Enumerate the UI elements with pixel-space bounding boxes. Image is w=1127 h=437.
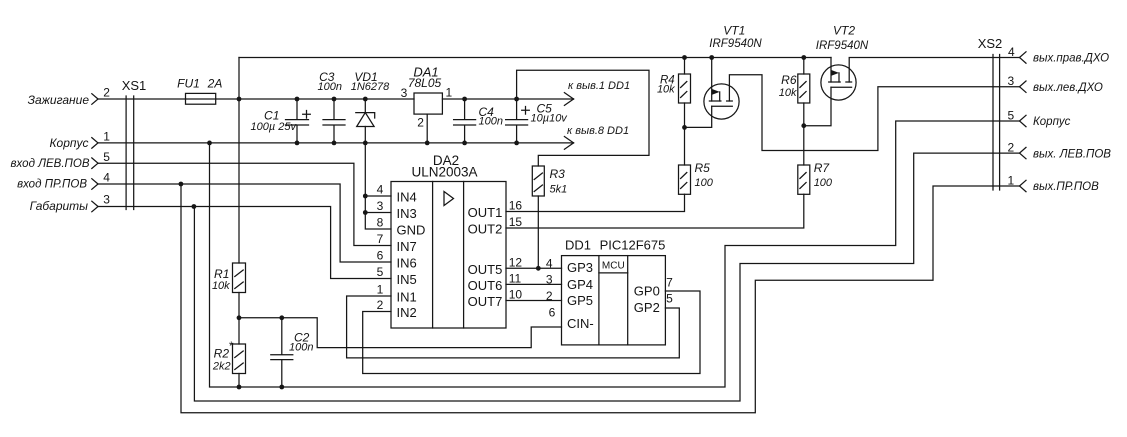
svg-text:1: 1 <box>1008 174 1015 188</box>
wire R1 bottom to divider node <box>238 293 240 318</box>
svg-text:2k2: 2k2 <box>212 360 231 372</box>
junction C4 top <box>462 97 467 102</box>
node вых.ПР.ПОВ pin 1 XS2 <box>1020 180 1027 191</box>
junction R4 R5 gate node <box>682 125 687 130</box>
svg-text:100: 100 <box>814 177 833 189</box>
svg-text:4: 4 <box>1008 45 1015 59</box>
svg-text:10k: 10k <box>779 87 797 99</box>
wire +5V wrap to R3 <box>517 70 649 166</box>
svg-text:R5: R5 <box>695 161 711 175</box>
svg-text:2A: 2A <box>207 77 223 91</box>
svg-text:10k: 10k <box>657 84 675 96</box>
svg-text:IN7: IN7 <box>397 239 417 254</box>
junction C3 top <box>332 97 337 102</box>
junction VD1 bottom <box>363 141 368 146</box>
svg-text:вых.ПР.ПОВ: вых.ПР.ПОВ <box>1033 181 1099 193</box>
svg-text:IN4: IN4 <box>397 189 417 204</box>
svg-text:15: 15 <box>509 215 523 229</box>
wire OUT5 to GP3 <box>506 267 562 269</box>
svg-text:10µ10v: 10µ10v <box>531 113 569 125</box>
wire OUT1 to R5 <box>506 194 685 211</box>
svg-text:1: 1 <box>445 86 452 100</box>
svg-text:Корпус: Корпус <box>49 136 88 150</box>
node вход ЛЕВ.ПОВ pin 5 XS1 <box>92 158 98 169</box>
svg-text:к выв.8 DD1: к выв.8 DD1 <box>567 125 629 137</box>
svg-text:3: 3 <box>546 273 553 287</box>
svg-text:R1: R1 <box>214 267 229 281</box>
svg-text:CIN-: CIN- <box>567 316 594 331</box>
svg-text:*: * <box>228 339 233 353</box>
wire divider to CIN- <box>239 318 562 348</box>
svg-text:4: 4 <box>377 183 384 197</box>
junction R3 to OUT5 GP3 wire <box>536 266 541 271</box>
svg-text:5k1: 5k1 <box>550 184 568 196</box>
svg-text:IRF9540N: IRF9540N <box>816 40 869 52</box>
resistor R1 <box>233 263 246 293</box>
wire ground to ULN2003 GND IN3 IN4 <box>365 143 391 229</box>
svg-text:R7: R7 <box>814 161 831 175</box>
svg-text:IN3: IN3 <box>397 206 417 221</box>
svg-text:XS2: XS2 <box>978 36 1003 51</box>
svg-text:5: 5 <box>666 292 673 306</box>
wire R3 bottom to GP3 <box>537 196 539 268</box>
resistor R4 <box>679 58 691 166</box>
svg-text:IN6: IN6 <box>397 255 417 270</box>
wire Габариты to IN5 <box>98 207 391 279</box>
svg-text:GND: GND <box>397 222 426 237</box>
svg-text:XS1: XS1 <box>122 78 147 93</box>
VT1 source arrow <box>712 89 720 95</box>
svg-text:10: 10 <box>509 288 523 302</box>
svg-text:ULN2003A: ULN2003A <box>411 165 477 180</box>
svg-text:вых. ЛЕВ.ПОВ: вых. ЛЕВ.ПОВ <box>1033 148 1111 160</box>
VT2 source arrow <box>831 70 839 76</box>
svg-text:вых.лев.ДХО: вых.лев.ДХО <box>1033 82 1103 94</box>
svg-text:OUT7: OUT7 <box>468 294 503 309</box>
svg-text:Габариты: Габариты <box>30 199 89 213</box>
node Зажигание pin 2 XS1 <box>92 94 98 105</box>
svg-text:OUT5: OUT5 <box>468 262 503 277</box>
svg-text:8: 8 <box>377 216 384 230</box>
resistor R2 <box>233 318 246 387</box>
svg-text:R3: R3 <box>550 167 566 181</box>
node вых.лев.ДХО pin 3 XS2 <box>1020 81 1027 92</box>
wire OUT6 to GP4 <box>506 283 562 285</box>
svg-text:OUT2: OUT2 <box>468 222 503 237</box>
junction ground to chassis net <box>207 141 212 146</box>
transistor VT2 <box>804 58 856 126</box>
resistor R6 <box>798 58 810 166</box>
svg-text:6: 6 <box>549 306 556 320</box>
junction C4 bottom <box>462 141 467 146</box>
svg-text:GP4: GP4 <box>567 277 593 292</box>
wire top +12V rail <box>239 57 831 59</box>
svg-text:100n: 100n <box>318 81 342 93</box>
svg-text:7: 7 <box>666 275 673 289</box>
junction R6 top rail <box>801 55 806 60</box>
fuse FU1 <box>186 93 216 104</box>
connector XS2 <box>993 55 1000 191</box>
svg-text:2: 2 <box>417 115 424 129</box>
junction C2 bottom ground <box>279 385 284 390</box>
junction C3 bottom <box>332 141 337 146</box>
svg-text:MCU: MCU <box>602 261 625 272</box>
svg-text:5: 5 <box>1008 109 1015 123</box>
svg-text:Корпус: Корпус <box>1033 116 1071 128</box>
svg-text:5: 5 <box>103 150 110 164</box>
IC DD1 PIC12F675 <box>562 256 666 345</box>
junction fuse output node <box>237 97 242 102</box>
svg-text:4: 4 <box>546 256 553 270</box>
capacitor C1 <box>286 99 311 143</box>
wire VT1 drain to XS2 pin 3 <box>729 75 1019 151</box>
svg-text:GP0: GP0 <box>634 284 660 299</box>
resistor R3 <box>532 166 544 196</box>
svg-text:IN2: IN2 <box>397 305 417 320</box>
junction R1 R2 divider <box>237 315 242 320</box>
svg-text:100µ 25v: 100µ 25v <box>251 121 298 133</box>
junction C2 top <box>279 315 284 320</box>
svg-text:3: 3 <box>1008 74 1015 88</box>
wire GP2 to IN1 <box>347 296 680 358</box>
svg-text:16: 16 <box>509 199 523 213</box>
svg-text:100n: 100n <box>479 116 503 128</box>
svg-text:IN1: IN1 <box>397 289 417 304</box>
junction IN4 tie <box>363 194 368 199</box>
svg-text:2: 2 <box>1008 141 1015 155</box>
wire +5V rail <box>442 93 573 106</box>
svg-text:вход ПР.ПОВ: вход ПР.ПОВ <box>17 179 87 191</box>
wire OUT2 to R7 <box>506 194 804 228</box>
junction Габариты branch <box>192 204 197 209</box>
svg-text:1N6278: 1N6278 <box>351 81 390 93</box>
junction VD1 top <box>363 97 368 102</box>
resistor R7 <box>798 165 810 194</box>
svg-text:12: 12 <box>509 255 523 269</box>
wire OUT7 to GP5 <box>506 300 562 302</box>
svg-text:FU1: FU1 <box>177 77 200 91</box>
svg-text:100n: 100n <box>289 341 313 353</box>
svg-text:1: 1 <box>103 129 110 143</box>
wire XS2 pin 2 to Габариты line <box>194 153 1019 401</box>
junction C5 top <box>514 97 519 102</box>
svg-text:Зажигание: Зажигание <box>28 93 90 107</box>
wire VT2 drain to XS2 pin 4 <box>849 58 1019 83</box>
diode VD1 <box>356 99 375 143</box>
svg-text:OUT6: OUT6 <box>468 278 503 293</box>
wire вход ЛЕВ.ПОВ to IN7 <box>98 163 391 245</box>
junction C1 bottom <box>295 141 300 146</box>
svg-text:1: 1 <box>377 283 384 297</box>
svg-text:7: 7 <box>377 232 384 246</box>
svg-text:2: 2 <box>377 298 384 312</box>
wire +12V riser and R1 feed <box>238 58 240 264</box>
capacitor C2 <box>271 318 293 387</box>
capacitor C3 <box>323 99 345 143</box>
svg-text:к выв.1 DD1: к выв.1 DD1 <box>568 80 630 92</box>
wire XS2 pin 1 to вход ПР.ПОВ line <box>181 184 1020 413</box>
junction R2 bottom ground <box>237 385 242 390</box>
svg-text:6: 6 <box>377 249 384 263</box>
node Габариты pin 3 XS1 <box>92 201 98 212</box>
svg-text:вход ЛЕВ.ПОВ: вход ЛЕВ.ПОВ <box>11 158 90 170</box>
junction R4 top rail <box>682 55 687 60</box>
wire ground rail <box>98 137 574 150</box>
capacitor C4 <box>454 99 476 143</box>
node вых.прав.ДХО pin 4 XS2 <box>1020 52 1027 63</box>
junction IN3 tie <box>363 210 368 215</box>
node вых. ЛЕВ.ПОВ pin 2 XS2 <box>1020 147 1027 158</box>
capacitor C5 <box>506 99 530 143</box>
node Корпус pin 1 XS1 <box>92 138 98 149</box>
svg-text:3: 3 <box>377 199 384 213</box>
wire GP0 to IN2 <box>363 291 700 374</box>
resistor R5 <box>679 165 691 194</box>
junction C5 bottom <box>514 141 519 146</box>
svg-text:2: 2 <box>546 289 553 303</box>
regulator DA1 <box>414 93 442 143</box>
svg-text:3: 3 <box>401 86 408 100</box>
svg-text:IRF9540N: IRF9540N <box>709 38 762 50</box>
wire вход ПР.ПОВ to IN6 <box>98 184 391 262</box>
svg-text:5: 5 <box>377 265 384 279</box>
svg-text:VT2: VT2 <box>833 24 855 38</box>
svg-text:10k: 10k <box>212 280 230 292</box>
svg-text:VT1: VT1 <box>723 24 745 38</box>
svg-text:2: 2 <box>103 86 110 100</box>
IC DA2 ULN2003A <box>391 182 506 329</box>
connector XS1 <box>126 96 134 210</box>
wire +12V from fuse to DA1 input <box>216 98 414 100</box>
transistor VT1 <box>685 58 740 128</box>
svg-text:78L05: 78L05 <box>408 76 442 90</box>
wire Корпус net to XS2 pin 5 <box>210 121 1020 387</box>
svg-text:GP5: GP5 <box>567 293 593 308</box>
node вход ПР.ПОВ pin 4 XS1 <box>92 179 98 190</box>
svg-text:4: 4 <box>103 171 110 185</box>
junction DA1 pin 2 ground <box>425 141 430 146</box>
svg-text:GP3: GP3 <box>567 260 593 275</box>
svg-text:GP2: GP2 <box>634 300 660 315</box>
svg-text:OUT1: OUT1 <box>468 205 503 220</box>
wire ignition input to fuse <box>98 98 186 100</box>
junction VT1 source rail <box>709 55 714 60</box>
svg-text:DD1: DD1 <box>565 237 591 252</box>
svg-text:R6: R6 <box>781 73 797 87</box>
svg-text:100: 100 <box>695 177 714 189</box>
svg-text:11: 11 <box>509 271 522 285</box>
svg-text:вых.прав.ДХО: вых.прав.ДХО <box>1033 53 1109 65</box>
node Корпус pin 5 XS2 <box>1020 115 1027 126</box>
svg-text:3: 3 <box>103 193 110 207</box>
junction ПР.ПОВ branch <box>179 182 184 187</box>
junction C1 top <box>295 97 300 102</box>
svg-text:R2: R2 <box>214 347 230 361</box>
svg-text:PIC12F675: PIC12F675 <box>600 237 666 252</box>
junction R6 R7 gate node <box>801 123 806 128</box>
svg-text:IN5: IN5 <box>397 272 417 287</box>
